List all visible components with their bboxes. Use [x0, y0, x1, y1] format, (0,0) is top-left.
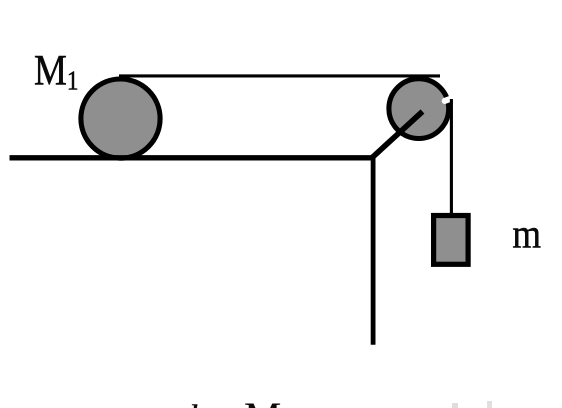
svg-text:m: m: [512, 212, 541, 257]
pulley at table corner: [389, 79, 449, 139]
rope (vertical segment from pulley to hanging mass): [450, 99, 453, 216]
rope (horizontal segment from block M1 to pulley): [119, 74, 440, 77]
table surface (horizontal): [10, 155, 374, 160]
caption fragment: faint letter tops at right: [452, 403, 458, 408]
pulley support arm (diagonal, ends at pulley centre): [371, 112, 423, 159]
block M1 (circle on table): [81, 79, 160, 158]
table edge (vertical): [371, 155, 376, 345]
svg-text:h: h: [188, 396, 208, 408]
label m: [512, 212, 541, 257]
svg-text:M: M: [244, 396, 281, 408]
hanging mass m (rectangle): [434, 216, 469, 265]
pulley rim notch (white gap where rope leaves rim): [445, 98, 454, 101]
label M1: [34, 46, 78, 96]
